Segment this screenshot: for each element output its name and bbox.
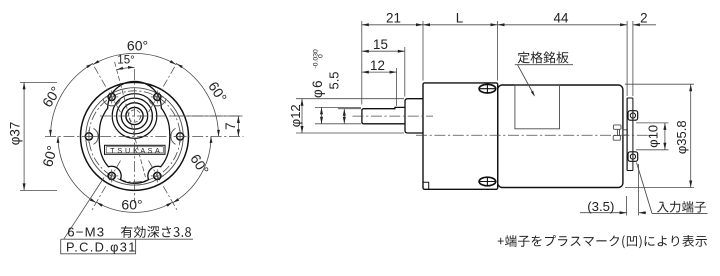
- front view: bolt P.C.D. circle phi31: [89, 91, 180, 182]
- dimension 5.5: [343, 109, 345, 124]
- top dimension extension lines: [361, 21, 363, 105]
- label nameplate (teikaku meiban): [518, 51, 569, 63]
- dimension 21: [362, 24, 627, 26]
- svg-text:L: L: [456, 10, 463, 25]
- left extension lines: [296, 98, 404, 100]
- dimension 44: [498, 23, 505, 26]
- bolt hole M3 at 300 deg: [154, 172, 161, 179]
- 15 deg dimension arc: [117, 67, 135, 69]
- 60 deg dimension arc lower-right: [173, 136, 211, 202]
- svg-text:15: 15: [373, 37, 388, 52]
- bolt hole M3 at 240 deg: [108, 172, 115, 179]
- svg-text:φ37: φ37: [8, 122, 23, 146]
- dimension phi6 h7: [321, 107, 323, 123]
- leader 6-M3: [64, 178, 104, 239]
- 60 deg dimension arc upper-right: [177, 64, 219, 137]
- front view horizontal centerline: [45, 135, 244, 137]
- output shaft phi6 with flat: [362, 107, 405, 123]
- terminal plate: [626, 98, 628, 171]
- front view: shaft concentric circles: [112, 94, 157, 139]
- dimension phi12: [301, 99, 303, 133]
- rear shaft end bump: [623, 130, 627, 135]
- gearhead screw: [479, 177, 496, 186]
- bolt hole M3 at 60 deg: [154, 93, 161, 100]
- svg-text:12: 12: [370, 58, 385, 73]
- svg-text:44: 44: [554, 10, 569, 25]
- gearhead body: [423, 83, 498, 189]
- svg-text:2: 2: [640, 10, 647, 25]
- side view shaft centerline: [353, 115, 434, 117]
- terminal bottom: [628, 152, 638, 162]
- svg-text:5.5: 5.5: [326, 71, 341, 89]
- dimension phi37: [20, 81, 57, 83]
- bolt hole M3 at 0 deg: [177, 133, 184, 140]
- svg-text:φ6: φ6: [310, 79, 325, 98]
- gearhead screw: [479, 84, 496, 93]
- svg-text:60°: 60°: [121, 197, 142, 213]
- svg-text:21: 21: [386, 10, 401, 25]
- svg-text:P.C.D.φ31: P.C.D.φ31: [66, 240, 137, 255]
- 60 deg dimension arc bottom: [97, 202, 173, 212]
- front view: motor body outer circle (phi37): [81, 82, 189, 190]
- 60 deg dimension arc lower-left: [58, 136, 96, 202]
- svg-text:7: 7: [223, 122, 238, 129]
- side view motor centerline: [416, 134, 655, 136]
- front view: gear cover bell outline: [99, 81, 170, 183]
- front view: face chamfer circle: [86, 88, 183, 185]
- label input terminal (nyuryoku tanshi): [657, 201, 706, 213]
- svg-text:φ10: φ10: [646, 125, 661, 148]
- front view vertical centerline: [134, 69, 136, 203]
- TSUKASA nameplate box: [105, 145, 166, 154]
- dimension 12: [362, 71, 397, 73]
- svg-text:60°: 60°: [127, 38, 148, 54]
- shaft boss phi12: [405, 99, 423, 133]
- svg-text:15°: 15°: [117, 54, 134, 66]
- bolt hole M3 at 120 deg: [108, 93, 115, 100]
- svg-text:T S U K A S A: T S U K A S A: [110, 146, 160, 155]
- terminal top: [628, 111, 638, 121]
- motor body: [498, 85, 623, 188]
- bolt hole M3 at 180 deg: [85, 133, 92, 140]
- svg-text:(3.5): (3.5): [587, 199, 614, 214]
- svg-text:6−M3: 6−M3: [67, 225, 105, 240]
- 15 deg radial line: [115, 62, 146, 177]
- dimension 2: [633, 24, 656, 26]
- svg-text:φ12: φ12: [288, 104, 303, 127]
- dimension phi10: [636, 122, 669, 124]
- dimension 15: [362, 50, 405, 52]
- bolt radial centerlines: [149, 61, 179, 112]
- 60 deg dimension arc top: [93, 53, 176, 64]
- shaft horizontal centerline: [100, 115, 243, 117]
- svg-text:φ35.8: φ35.8: [674, 120, 689, 154]
- hole boss arcs: [171, 128, 176, 144]
- rear internal bearing detail: [613, 125, 621, 129]
- note: plus terminal marked with recessed plus mark: [498, 235, 707, 248]
- dimension L: [423, 23, 430, 26]
- dimension phi35.8: [625, 83, 694, 85]
- nameplate rectangle: [515, 85, 560, 129]
- note P.C.D. phi31 box: [61, 239, 136, 254]
- label phi6 tolerance: [310, 49, 325, 98]
- svg-text:-0.030: -0.030: [313, 49, 320, 68]
- gearhead bottom step: [423, 182, 429, 189]
- dimension (3.5): [626, 196, 628, 216]
- dimension 7 (shaft offset): [170, 115, 243, 117]
- 60 deg dimension arc upper-left: [51, 64, 93, 137]
